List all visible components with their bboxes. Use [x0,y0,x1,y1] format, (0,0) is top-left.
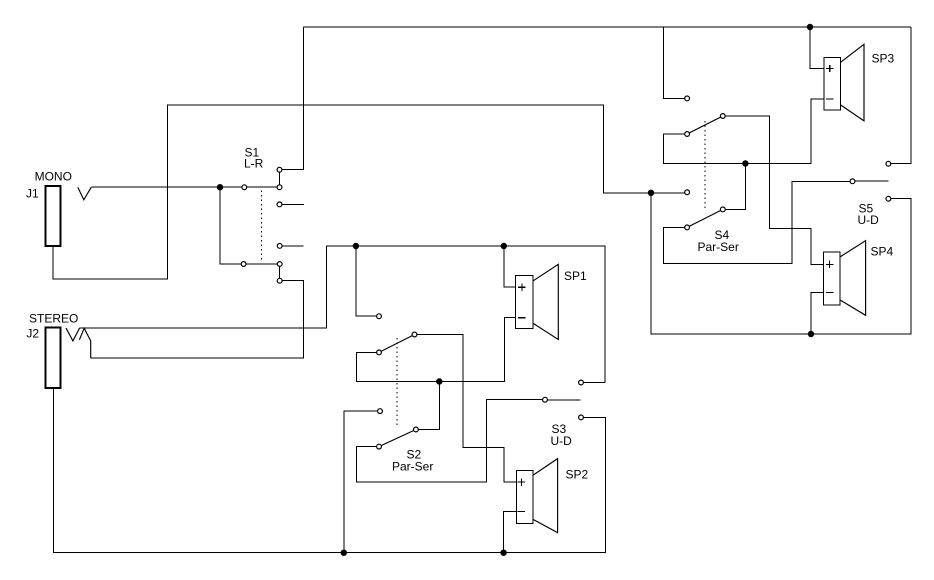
S1 contact pole1 up throw [277,167,282,172]
junction left bus at SP1 [501,243,507,249]
S3 arm [548,399,581,401]
S2 contact pole2 up throw [378,409,383,414]
S5 contact down throw [886,196,891,201]
S2 contact pole1 up throw [377,314,382,319]
SP3 minus mark [826,98,833,100]
S4 contact pole1 down throw [685,132,690,137]
wire SP2 minus lead [504,511,517,552]
wire J1 tip to S1 pole1 common [91,186,244,188]
svg-text:L-R: L-R [244,156,264,170]
S1 contact pole2 up throw [277,244,282,249]
S2 gang line [396,338,398,426]
S1 contact pole1 common [242,185,247,190]
jack J1 [45,186,60,246]
S1 pole1 lower throw stub [280,203,304,205]
S1 pole2 throw link [279,264,281,281]
svg-text:SP2: SP2 [566,467,589,481]
SP2 plus mark [518,478,525,485]
svg-text:J1: J1 [26,186,39,200]
S4 contact pole2 down throw [685,225,690,230]
S4 pole1 arm [687,116,723,134]
wire S2 pole2 throw to S3 common [357,400,545,482]
wire ground bus to S5 lower throw [651,193,911,334]
S1 pole2 upper throw stub [280,245,304,247]
S2 contact pole2 common [414,427,419,432]
S1 pole1 arm [244,186,279,188]
wire left bus to S2 pole1 throw [356,246,379,316]
junction ground bus node [648,190,654,196]
SP2 cone [533,459,558,533]
wire S2 pole1 throw to SP1 minus [357,318,516,382]
wire top bus [304,26,912,28]
S1 contact pole1 arm end [277,185,282,190]
speaker SP2 body [516,470,533,523]
S4 contact pole1 up throw [685,96,690,101]
svg-text:U-D: U-D [551,434,573,448]
wire node to S1 pole2 common [220,187,244,264]
S1 contact pole2 arm end [277,262,282,267]
svg-text:SP4: SP4 [871,245,894,259]
SP3 cone [841,44,865,121]
S4 gang line [704,121,706,211]
wire to S2 pole2 common [416,382,439,430]
svg-text:Par-Ser: Par-Ser [392,460,433,474]
wire S1 throw L to top bus [280,27,304,170]
svg-text:STEREO: STEREO [29,311,78,325]
svg-text:SP3: SP3 [872,52,895,66]
S3 contact up throw [579,380,584,385]
S1 pole1 throw link [279,170,281,188]
wire bottom bus to S2 pole2 throw [344,411,380,553]
wire SP3 minus to S4 pole1 throw [663,99,824,164]
SP2 minus mark [518,510,525,512]
S5 contact up throw [886,161,891,166]
S1 contact pole2 down throw [277,278,282,283]
wire top bus to S4 pole1 throw [663,27,687,98]
wire S4 pole1 common to SP4 plus [723,116,824,264]
J2 ring contact [79,328,90,358]
S3 contact common [543,397,548,402]
wire SP4 minus lead [811,293,823,335]
wire SP1 plus lead [504,246,516,287]
S2 pole2 arm [379,430,416,447]
wire top bus to S5 upper throw [888,27,911,164]
S1 contact pole2 common [241,262,246,267]
junction bottom bus at S2 [341,550,347,556]
SP1 minus mark [518,317,525,319]
wire SP3 plus lead [810,27,824,69]
svg-text:SP1: SP1 [564,269,587,283]
SP1 cone [533,264,558,339]
wire S2 pole1 common to SP2 plus [415,335,517,483]
S2 contact pole1 common [412,332,417,337]
svg-text:U-D: U-D [858,213,880,227]
speaker SP1 body [516,276,534,329]
S5 contact common [850,179,855,184]
junction bottom bus at SP2 [500,550,506,556]
S4 contact pole2 common [720,207,725,212]
J2 tip contact [66,328,80,341]
junction left bus at S2 [353,243,359,249]
speaker SP3 body [824,57,841,110]
S2 contact pole2 down throw [377,444,382,449]
S1 gang line [261,190,263,261]
S2 contact pole1 down throw [377,350,382,355]
junction SP1 minus bus [436,378,442,384]
wire J2 sleeve bottom bus [53,388,605,553]
S5 arm [855,180,889,182]
svg-text:Par-Ser: Par-Ser [698,240,739,254]
wire S4 pole2 throw to S5 common [663,181,852,263]
S3 contact down throw [579,415,584,420]
SP3 plus mark [826,65,833,72]
svg-text:MONO: MONO [35,169,72,183]
S4 contact pole2 up throw [685,190,690,195]
J1 tip contact [78,187,92,200]
SP4 plus mark [826,261,833,268]
speaker SP4 body [823,252,840,305]
wire to S4 pole2 common [723,164,746,210]
jack J2 [46,327,61,387]
svg-text:J2: J2 [26,326,39,340]
junction SP3 plus node [807,24,813,30]
S4 pole2 arm [687,209,723,227]
wire J1 sleeve to S4 pole2 throw [53,105,687,279]
wire S1 throw R to J2 ring [91,281,304,358]
SP4 minus mark [826,292,833,294]
S4 contact pole1 common [720,114,725,119]
S1 pole2 arm [244,263,280,265]
junction S4 bus node [742,160,748,166]
junction SP4 minus node [808,331,814,337]
SP4 cone [840,241,866,316]
junction J1 tip node [217,184,223,190]
SP1 plus mark [518,284,525,291]
S1 contact pole1 down throw [277,202,282,207]
wire J2 tip left bus [80,246,605,383]
S2 pole1 arm [379,335,415,353]
